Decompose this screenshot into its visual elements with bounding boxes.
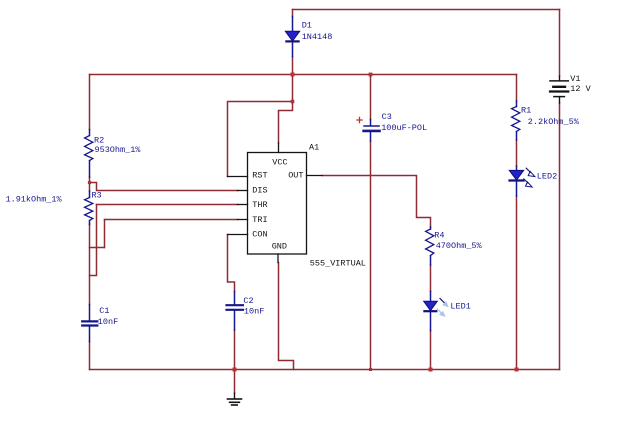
svg-text:C3: C3 — [382, 112, 392, 122]
pin CON stub — [228, 234, 248, 236]
svg-text:1N4148: 1N4148 — [302, 32, 333, 42]
svg-text:D1: D1 — [302, 20, 312, 30]
svg-text:VCC: VCC — [272, 157, 287, 167]
wire: D1 cathode segment to VCC rail — [292, 57, 294, 75]
svg-text:GND: GND — [272, 241, 287, 251]
svg-text:2.2kOhm_5%: 2.2kOhm_5% — [528, 117, 580, 127]
svg-text:R1: R1 — [521, 106, 531, 116]
svg-text:1.91kOhm_1%: 1.91kOhm_1% — [6, 194, 63, 204]
wire: R1 top lead from VCC rail — [516, 75, 518, 102]
junction at LED1 column on bottom rail — [429, 368, 433, 372]
wire: V1 positive lead from top rail — [559, 10, 561, 77]
svg-text:DIS: DIS — [252, 185, 267, 195]
wire: TRI vertical — [104, 220, 106, 248]
wire: DIS tap from R2/R3 node — [90, 183, 238, 191]
wire: THR horizontal — [97, 204, 238, 206]
wire: R1 bottom to LED2 anode — [516, 140, 518, 166]
wire: C2 bottom to ground rail — [234, 330, 236, 370]
wire: RST branch wire — [228, 102, 293, 177]
svg-text:470Ohm_5%: 470Ohm_5% — [436, 241, 483, 251]
junction at D1 cathode on VCC rail — [291, 73, 295, 77]
wire: ground symbol stem — [234, 370, 236, 394]
wire: LED2 cathode to ground rail — [516, 196, 518, 370]
junction at C3 on VCC rail — [369, 73, 373, 77]
wire: R2 bottom to R3 top — [89, 177, 91, 191]
junction at DIS tap on R2/R3 column — [88, 181, 91, 184]
resistor R4 — [426, 227, 434, 265]
svg-text:V1: V1 — [570, 74, 580, 84]
LED1 — [424, 292, 449, 331]
wire: R2 top lead wire — [89, 75, 91, 130]
junction at RST branch corner — [291, 100, 295, 104]
pin VCC stub — [278, 143, 280, 153]
wire: C1 bottom to ground rail — [89, 342, 91, 370]
wire: A1 GND pin to ground rail — [279, 263, 294, 370]
wire: D1 anode segment — [292, 10, 294, 17]
svg-text:LED1: LED1 — [450, 301, 470, 311]
wire: VCC rail jog down to A1 VCC pin — [279, 75, 293, 144]
pin RST stub — [228, 176, 248, 178]
wire: C3 top from VCC rail — [370, 75, 372, 120]
wire: LED1 cathode to ground rail — [430, 331, 432, 370]
svg-text:R4: R4 — [434, 231, 444, 241]
svg-text:C2: C2 — [243, 296, 253, 306]
svg-text:OUT: OUT — [288, 170, 303, 180]
wire: R3 bottom down to C1 — [89, 224, 91, 305]
timer A1 555_VIRTUAL body — [248, 153, 307, 255]
diode D1 — [285, 17, 299, 57]
svg-text:TRI: TRI — [252, 215, 267, 225]
pin DIS stub — [237, 190, 247, 192]
svg-text:LED2: LED2 — [537, 171, 557, 181]
wire: OUT to R4 top — [322, 176, 431, 228]
resistor R2 — [85, 130, 93, 178]
pin THR stub — [237, 204, 247, 206]
svg-text:100uF-POL: 100uF-POL — [381, 123, 427, 133]
pin TRI stub — [237, 219, 247, 221]
wire: THR vertical to C1 node — [90, 205, 97, 276]
capacitor C2 — [227, 292, 243, 331]
wire: TRI horizontal — [105, 219, 238, 221]
LED2 — [509, 166, 535, 196]
svg-text:C1: C1 — [99, 306, 109, 316]
svg-text:R2: R2 — [94, 135, 104, 145]
wire: bottom ground rail — [90, 369, 560, 371]
junction at LED2 column on bottom rail — [515, 368, 519, 372]
wire: VCC horizontal rail — [90, 74, 517, 76]
wire: top rail from D1 anode to V1 plus — [293, 9, 560, 11]
junction at C3 column on bottom rail — [369, 368, 372, 371]
ground — [228, 393, 242, 405]
polarized capacitor C3 — [357, 117, 380, 141]
svg-text:THR: THR — [252, 200, 267, 210]
wire: R4 bottom to LED1 anode — [430, 265, 432, 292]
svg-text:10nF: 10nF — [98, 317, 118, 327]
svg-text:A1: A1 — [309, 142, 319, 152]
svg-text:10nF: 10nF — [244, 307, 264, 317]
svg-text:12 V: 12 V — [570, 84, 591, 94]
wire: C3 bottom to ground rail — [370, 141, 372, 370]
pin GND stub — [277, 254, 279, 263]
wire: V1 negative to bottom-right corner — [559, 103, 561, 370]
wire: R3 bottom link to TRI vertical — [90, 247, 105, 249]
battery V1 — [550, 76, 568, 103]
capacitor C1 — [82, 305, 97, 342]
svg-text:555_VIRTUAL: 555_VIRTUAL — [310, 258, 366, 268]
svg-text:953Ohm_1%: 953Ohm_1% — [95, 145, 142, 155]
wire: CON to C2 top — [228, 235, 235, 292]
resistor R1 — [512, 101, 520, 140]
resistor R3 — [85, 191, 93, 225]
pin OUT stub — [307, 175, 323, 177]
svg-text:CON: CON — [252, 229, 267, 239]
svg-text:R3: R3 — [92, 190, 102, 200]
svg-text:RST: RST — [252, 170, 267, 180]
junction at ground node on bottom rail — [233, 368, 237, 372]
